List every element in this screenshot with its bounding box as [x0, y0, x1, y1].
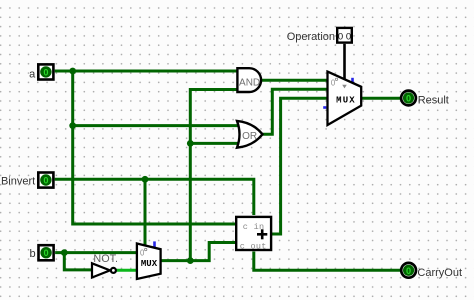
svg-text:0: 0	[406, 94, 411, 104]
svg-text:c out: c out	[240, 241, 267, 251]
svg-text:0: 0	[43, 67, 48, 77]
svg-text:Operation: Operation	[287, 31, 335, 43]
svg-text:0: 0	[44, 248, 49, 258]
svg-text:0: 0	[43, 176, 48, 186]
svg-text:a: a	[29, 69, 36, 81]
svg-text:MUX: MUX	[141, 259, 158, 269]
svg-text:0 0: 0 0	[338, 31, 351, 42]
svg-text:MUX: MUX	[336, 95, 356, 105]
svg-text:AND: AND	[239, 78, 260, 89]
svg-text:0: 0	[406, 266, 411, 276]
svg-text:OR: OR	[242, 131, 257, 142]
svg-text:Result: Result	[418, 95, 449, 107]
svg-text:b: b	[29, 248, 35, 260]
svg-text:Binvert: Binvert	[1, 175, 35, 187]
svg-text:NOT.: NOT.	[93, 253, 118, 265]
svg-text:CarryOut: CarryOut	[417, 267, 462, 279]
